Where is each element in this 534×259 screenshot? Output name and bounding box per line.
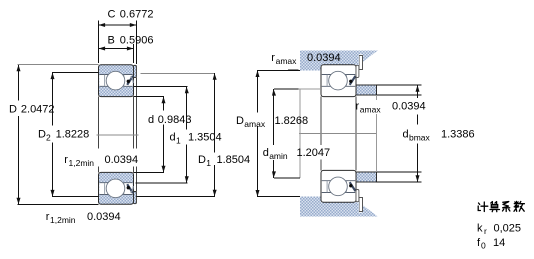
svg-text:D: D xyxy=(9,104,17,116)
svg-text:1.3386: 1.3386 xyxy=(441,129,475,141)
shaft shoulder lower xyxy=(356,172,377,182)
centerline right xyxy=(299,132,377,134)
shaft end face xyxy=(299,89,301,178)
svg-text:14: 14 xyxy=(493,237,505,249)
svg-text:0.6772: 0.6772 xyxy=(120,9,154,21)
dimension D1 xyxy=(140,72,215,74)
bearing bottom half section (mirrored) xyxy=(99,172,137,204)
svg-text:1.2047: 1.2047 xyxy=(297,147,331,159)
svg-text:0.0394: 0.0394 xyxy=(307,52,341,64)
dimension D2 xyxy=(52,72,99,74)
svg-text:amin: amin xyxy=(269,151,288,161)
bearing lower half (white, mirrored) xyxy=(321,170,359,202)
bore outline right xyxy=(133,97,135,149)
svg-text:d: d xyxy=(170,131,176,143)
dimension damin xyxy=(274,88,299,90)
svg-text:0.5906: 0.5906 xyxy=(120,35,154,47)
svg-text:B: B xyxy=(108,35,115,47)
svg-text:C: C xyxy=(108,9,116,21)
svg-text:1.8504: 1.8504 xyxy=(217,154,251,166)
bearing upper half (white) xyxy=(321,65,359,97)
dimension Damax xyxy=(257,69,300,71)
centerline xyxy=(97,134,139,136)
snap ring upper xyxy=(359,56,362,70)
svg-text:0.0394: 0.0394 xyxy=(105,154,139,166)
svg-text:1,2min: 1,2min xyxy=(50,215,76,225)
dimension d1 xyxy=(134,86,187,88)
bore outline left xyxy=(98,97,100,149)
shaft shoulder upper xyxy=(356,85,377,95)
svg-text:D: D xyxy=(236,115,244,127)
shaft seat lines xyxy=(377,94,422,96)
svg-text:d: d xyxy=(263,147,269,159)
svg-text:d: d xyxy=(148,114,154,126)
dimension D xyxy=(18,64,99,66)
svg-text:1,2min: 1,2min xyxy=(69,158,95,168)
svg-text:0.0394: 0.0394 xyxy=(87,211,121,223)
snap ring silhouette xyxy=(135,78,137,149)
svg-text:1: 1 xyxy=(206,158,211,168)
dimension d xyxy=(134,96,165,98)
svg-text:bmax: bmax xyxy=(409,133,431,143)
svg-text:2.0472: 2.0472 xyxy=(21,104,55,116)
dimension C xyxy=(99,24,137,26)
svg-text:1.8268: 1.8268 xyxy=(275,115,309,127)
svg-text:2: 2 xyxy=(46,133,51,143)
svg-text:r: r xyxy=(484,226,487,236)
svg-text:0: 0 xyxy=(481,241,486,251)
svg-text:amax: amax xyxy=(276,56,298,66)
svg-text:d: d xyxy=(403,129,409,141)
svg-text:D: D xyxy=(198,154,206,166)
dimension dbmax xyxy=(377,84,422,86)
snap ring lower xyxy=(359,198,362,212)
svg-text:amax: amax xyxy=(360,105,382,115)
shaft step face xyxy=(376,95,378,100)
svg-text:1.8228: 1.8228 xyxy=(56,129,90,141)
dimension B xyxy=(99,48,134,50)
svg-text:0,025: 0,025 xyxy=(494,223,522,235)
bearing top half section xyxy=(99,65,137,97)
housing upper (hatched) xyxy=(300,51,378,71)
svg-text:D: D xyxy=(38,129,46,141)
svg-text:0.0394: 0.0394 xyxy=(392,101,426,113)
svg-text:1: 1 xyxy=(176,135,181,145)
svg-text:amax: amax xyxy=(244,119,266,129)
housing lower (hatched) xyxy=(300,197,378,217)
chinese title 计算系数 (drawn strokes) xyxy=(478,201,524,211)
svg-text:k: k xyxy=(477,223,483,235)
bore outline right view xyxy=(320,97,322,145)
svg-text:1.3504: 1.3504 xyxy=(188,131,222,143)
